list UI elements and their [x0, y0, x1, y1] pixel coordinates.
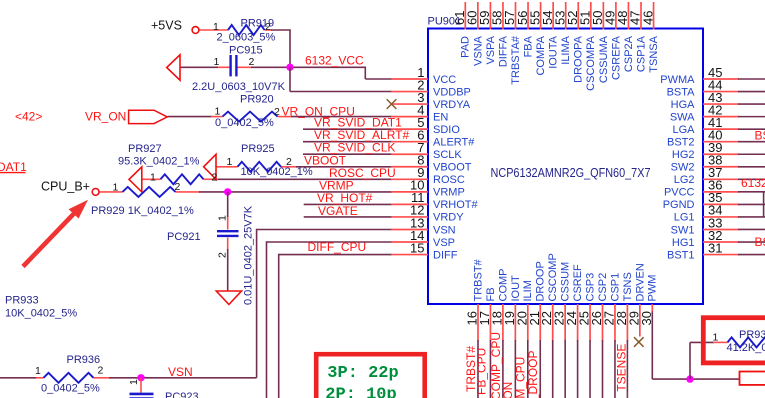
pin 14 VSP	[391, 228, 455, 249]
power terminal +5VS	[151, 18, 199, 33]
wire vertical into node 6132_VCC	[289, 30, 291, 67]
pin 34 LG1	[674, 203, 765, 224]
svg-text:PWMA: PWMA	[660, 74, 695, 86]
svg-text:BST1: BST1	[667, 249, 695, 261]
pin 24 CSREF	[564, 264, 584, 398]
pin 39 HG2	[672, 140, 765, 161]
off-page connector PWM net	[740, 372, 765, 385]
svg-text:CSREFA: CSREFA	[610, 35, 622, 80]
svg-text:PGND: PGND	[663, 199, 695, 211]
wire PR927 pin 2 to pin 9 ROSC	[204, 178, 393, 180]
arrow terminal PR925 tap	[204, 154, 216, 179]
svg-text:31: 31	[708, 240, 722, 255]
annotation left labels PR933	[5, 295, 77, 320]
annotation arrow to CPU_B+	[23, 200, 88, 267]
pin 59 VSPA	[477, 2, 497, 65]
svg-text:DROOPA: DROOPA	[573, 35, 585, 83]
resistor PR936 labels	[35, 354, 104, 394]
resistor R PR925 zigzag	[238, 162, 282, 172]
net label VR_SVID_ALRT#	[314, 128, 409, 142]
svg-text:2: 2	[98, 364, 104, 376]
svg-text:2_0603_5%: 2_0603_5%	[217, 32, 276, 44]
svg-text:VR_SVID_CLK: VR_SVID_CLK	[314, 140, 395, 154]
wire PR919 pin 2 to corner	[265, 29, 291, 31]
svg-text:SDIO: SDIO	[433, 124, 460, 136]
svg-text:0_0402_5%: 0_0402_5%	[41, 382, 100, 394]
pin 12 VRDY	[391, 203, 464, 224]
pin 22 CSCOMP	[539, 253, 559, 398]
pin 33 SW1	[671, 215, 765, 236]
svg-text:EN: EN	[433, 111, 448, 123]
svg-text:VRDY: VRDY	[433, 212, 464, 224]
svg-text:VDDBP: VDDBP	[433, 86, 471, 98]
svg-text:DAT1: DAT1	[0, 160, 27, 174]
resistor PR935 labels	[713, 329, 765, 354]
net label VRMP	[319, 178, 354, 192]
svg-text:ALERT#: ALERT#	[433, 137, 475, 149]
svg-text:BST2: BST2	[667, 137, 695, 149]
wire PR925 pin 1 tap	[216, 166, 238, 168]
svg-text:+5VS: +5VS	[151, 18, 182, 32]
svg-text:PR925: PR925	[241, 143, 275, 155]
pin 19 IOUT	[502, 275, 522, 398]
svg-text:BST: BST	[755, 129, 765, 143]
pin 54 IOUTA	[540, 2, 560, 69]
svg-text:TSNS: TSNS	[622, 272, 634, 301]
svg-text:CSSUMA: CSSUMA	[598, 35, 610, 83]
capacitor PC921 labels	[167, 205, 255, 305]
svg-text:VRDYA: VRDYA	[433, 99, 471, 111]
svg-text:PAD: PAD	[460, 36, 472, 58]
svg-text:2.2U_0603_10V7K: 2.2U_0603_10V7K	[192, 81, 286, 93]
pin 44 BSTA	[667, 77, 765, 98]
pin 42 SWA	[670, 102, 765, 123]
svg-text:2P: 10p: 2P: 10p	[325, 385, 396, 398]
svg-text:HG2: HG2	[672, 149, 695, 161]
svg-text:IOUTA: IOUTA	[548, 35, 560, 68]
wire PVCC loop edge	[763, 192, 765, 217]
wire pin 14 VSP vertical	[266, 241, 268, 398]
pin 4 EN	[391, 102, 448, 123]
pin 35 PGND	[663, 190, 765, 211]
svg-text:1: 1	[215, 106, 221, 118]
junction 6132_VCC	[286, 64, 293, 71]
svg-text:BSTA: BSTA	[667, 86, 696, 98]
pin 9 ROSC	[391, 165, 465, 186]
wire pin 30 PWM down	[651, 311, 653, 379]
svg-text:VSP: VSP	[433, 237, 455, 249]
pin 46 TSNSA	[640, 2, 660, 73]
junction VSN node	[137, 374, 144, 381]
pin 55 COMPA	[527, 2, 547, 76]
svg-text:VRHOT#: VRHOT#	[433, 199, 479, 211]
svg-text:VSN: VSN	[168, 365, 193, 379]
pin 43 HGA	[671, 90, 765, 111]
arrow terminal PC915 net	[167, 55, 180, 80]
svg-text:1: 1	[113, 182, 119, 194]
svg-text:SW2: SW2	[671, 162, 695, 174]
svg-text:CSP1A: CSP1A	[635, 35, 647, 72]
svg-text:IOUT: IOUT	[510, 275, 522, 302]
pin 17 FB	[477, 287, 497, 398]
capacitor PC923 labels	[128, 379, 199, 398]
svg-text:15: 15	[410, 240, 424, 255]
pin 20 ILIM	[514, 280, 534, 398]
resistor PR929 labels	[91, 181, 194, 217]
net label COMP_CPU	[489, 332, 503, 398]
svg-text:1: 1	[213, 21, 219, 33]
net label 6132 PVCC	[741, 176, 765, 190]
svg-text:VSN: VSN	[433, 224, 456, 236]
svg-text:0.01U_0402_25V7K: 0.01U_0402_25V7K	[243, 205, 255, 305]
svg-text:PR936: PR936	[67, 354, 101, 366]
net label ROSC_CPU	[329, 166, 396, 180]
pin 7 SCLK	[391, 140, 462, 161]
pin 16 TRBST#	[465, 258, 485, 398]
net label VGATE	[318, 204, 358, 218]
svg-text:SWA: SWA	[670, 111, 695, 123]
resistor R PR927 zigzag	[161, 174, 204, 184]
net label BST2	[755, 129, 765, 143]
net label VBOOT	[304, 154, 347, 168]
resistor PR919 labels	[213, 18, 275, 44]
capacitor C PC915	[231, 55, 237, 76]
resistor R PR919 zigzag	[228, 25, 265, 35]
wire PR936 pin 2 to VSN junction	[94, 377, 257, 379]
svg-text:LGA: LGA	[672, 124, 695, 136]
wire pin 13 VSN horizontal	[257, 229, 392, 231]
svg-text:PWM: PWM	[647, 275, 659, 302]
svg-text:TRBSTA#: TRBSTA#	[510, 35, 522, 85]
svg-text:CSP3: CSP3	[584, 273, 596, 302]
off-page connector VR_ON	[15, 109, 167, 123]
svg-text:ILIMA: ILIMA	[560, 35, 572, 64]
svg-text:FB_CPU: FB_CPU	[475, 348, 489, 395]
svg-text:VCC: VCC	[433, 74, 456, 86]
wire VR_SVID_ALRT# to pin 6	[303, 141, 392, 143]
wire VR_ON to PR920 pin 1	[168, 116, 223, 118]
svg-text:SCLK: SCLK	[433, 149, 462, 161]
svg-text:1: 1	[128, 379, 140, 385]
pin 57 TRBSTA#	[502, 2, 522, 85]
svg-text:PC923: PC923	[165, 391, 199, 398]
svg-text:PC915: PC915	[229, 45, 263, 57]
pin 60 VSNA	[465, 2, 485, 66]
wire PC915 pin 2 to node	[237, 66, 291, 68]
svg-text:CPU_DROOP: CPU_DROOP	[526, 350, 540, 398]
svg-text:ILIM: ILIM	[522, 280, 534, 301]
svg-text:TSNSA: TSNSA	[648, 35, 660, 72]
pin 58 DIFFA	[490, 2, 510, 67]
svg-text:10K_0402_1%: 10K_0402_1%	[241, 166, 313, 178]
wire node to pin 2 VDDBP	[290, 67, 392, 91]
net label VR_SVID_CLK	[314, 140, 395, 154]
net label CPU_DROOP	[526, 350, 540, 398]
wire CPU_B+ to PR929 pin 1	[99, 191, 123, 193]
svg-text:VSPA: VSPA	[485, 35, 497, 64]
svg-text:HGA: HGA	[671, 99, 696, 111]
wire pin 15 DIFF horizontal	[279, 254, 392, 256]
pin 56 FBA	[515, 2, 535, 57]
pin 1 VCC	[391, 65, 456, 86]
pin 5 SDIO	[391, 115, 460, 136]
svg-text:3P: 22p: 3P: 22p	[327, 364, 398, 383]
junction PWM node	[686, 375, 693, 382]
svg-text:CSP2: CSP2	[597, 273, 609, 302]
svg-text:BST: BST	[755, 235, 765, 249]
pin 48 CSP2A	[615, 2, 635, 72]
svg-text:COMPA: COMPA	[535, 35, 547, 75]
svg-text:DIFF: DIFF	[433, 249, 458, 261]
pin 30 PWM	[639, 275, 659, 326]
svg-text:2: 2	[212, 172, 218, 184]
wire PR925 pin 2 to pin 8 VBOOT	[281, 166, 392, 168]
svg-text:10K_0402_5%: 10K_0402_5%	[5, 307, 77, 319]
net label FB_CPU	[475, 348, 489, 395]
wire PR927 pin 1 tap	[142, 178, 161, 180]
pin 25 CSP3	[577, 273, 597, 398]
pin 61 PAD	[452, 2, 472, 58]
svg-text:1: 1	[35, 365, 41, 377]
svg-text:PR920: PR920	[240, 93, 274, 105]
junction VRMP node	[224, 188, 231, 195]
svg-text:95.3K_0402_1%: 95.3K_0402_1%	[118, 155, 200, 167]
net label DAT1 stub	[0, 160, 27, 174]
wire pin 14 VSP horizontal	[267, 241, 393, 243]
svg-text:VRMP: VRMP	[433, 187, 465, 199]
pin 41 LGA	[672, 115, 765, 136]
svg-text:CPU_B+: CPU_B+	[41, 179, 90, 193]
net label VSN	[168, 365, 193, 379]
resistor R PR920 zigzag	[223, 112, 278, 122]
svg-text:DIFFA: DIFFA	[497, 35, 509, 67]
wire PR920 pin 2 to pin 4 EN	[278, 116, 393, 118]
pin 32 HG1	[672, 228, 765, 249]
pin 45 PWMA	[660, 65, 765, 86]
svg-text:LG2: LG2	[674, 174, 695, 186]
wire pin 15 DIFF vertical	[278, 254, 280, 398]
wire +5VS to PR919 pin 1	[199, 29, 228, 31]
svg-text:CSREF: CSREF	[572, 264, 584, 302]
resistor R PR935 zigzag	[728, 337, 765, 347]
svg-text:VGATE: VGATE	[318, 204, 358, 218]
IC PU901 refdes	[428, 15, 462, 27]
pin 53 ILIMA	[552, 2, 572, 65]
pin 49 CSREFA	[603, 2, 623, 80]
svg-text:2: 2	[175, 181, 181, 193]
resistor PR927 labels	[118, 143, 218, 184]
wire VGATE to pin 12	[304, 216, 392, 218]
net label VR_SVID_DAT1	[314, 115, 402, 129]
pin 15 DIFF	[391, 240, 458, 261]
svg-text:NCP6132AMNR2G_QFN60_7X7: NCP6132AMNR2G_QFN60_7X7	[491, 165, 651, 180]
pin 3 VRDYA	[387, 90, 471, 111]
svg-text:CSCOMP: CSCOMP	[547, 253, 559, 301]
net label VR_TSENSE	[615, 344, 629, 398]
svg-text:VR_TSENSE: VR_TSENSE	[615, 344, 629, 398]
svg-text:VR_HOT#: VR_HOT#	[317, 191, 373, 205]
svg-text:PR933: PR933	[5, 295, 39, 307]
svg-text:LG1: LG1	[674, 212, 695, 224]
net label TRBST#	[464, 346, 478, 392]
svg-text:1: 1	[227, 156, 233, 168]
resistor PR920 labels	[215, 93, 281, 129]
wire VR_SVID_CLK to pin 7	[303, 153, 392, 155]
svg-text:PVCC: PVCC	[664, 187, 695, 199]
capacitor C PC923	[130, 394, 154, 398]
svg-text:2: 2	[217, 252, 229, 258]
svg-text:CSSUM: CSSUM	[560, 262, 572, 302]
pin 28 TSNS	[614, 272, 634, 398]
pin 6 ALERT#	[391, 128, 475, 149]
capacitor C PC921	[217, 231, 239, 236]
svg-text:46: 46	[640, 11, 655, 25]
svg-text:1: 1	[217, 215, 229, 221]
pin 2 VDDBP	[391, 77, 471, 98]
net label 6132_VCC	[305, 54, 364, 68]
pin 36 PVCC	[664, 178, 765, 199]
pin 18 COMP	[489, 269, 509, 398]
arrow terminal PR927 tap	[129, 167, 142, 192]
ground PC921	[216, 291, 241, 305]
svg-text:DIFF_CPU: DIFF_CPU	[308, 240, 367, 254]
power terminal CPU_B+	[41, 179, 99, 195]
svg-text:FB: FB	[485, 287, 497, 301]
wire junction up to PR935	[690, 342, 728, 379]
pin 37 LG2	[674, 165, 765, 186]
svg-text:1: 1	[150, 171, 156, 183]
pin 31 BST1	[667, 240, 765, 261]
svg-text:CSP2A: CSP2A	[623, 35, 635, 72]
resistor PR925 labels	[227, 143, 313, 178]
wire VSN node to PC923	[140, 378, 142, 393]
svg-text:1: 1	[713, 331, 719, 343]
svg-text:2: 2	[274, 106, 280, 118]
pin 21 DROOP	[527, 261, 547, 398]
svg-text:PC921: PC921	[167, 231, 201, 243]
wire VSN bottom run left	[0, 377, 44, 379]
svg-text:SW1: SW1	[671, 224, 695, 236]
wire VR_SVID_DAT1 to pin 5	[303, 128, 392, 130]
wire PR929 pin 2 to pin 10 VRMP	[176, 191, 393, 193]
svg-text:0_0402_5%: 0_0402_5%	[215, 117, 274, 129]
svg-text:HG1: HG1	[672, 237, 695, 249]
net label VR_HOT#	[317, 191, 373, 205]
svg-text:CSCOMPA: CSCOMPA	[585, 35, 597, 90]
pin 26 CSP2	[589, 273, 609, 398]
wire PC915 pin 1 side	[180, 66, 230, 68]
pin 13 VSN	[391, 215, 456, 236]
svg-text:2: 2	[286, 156, 292, 168]
resistor R PR936 zigzag	[44, 373, 94, 383]
wire node to pin 1 VCC	[290, 67, 392, 80]
pin 11 VRHOT#	[391, 190, 479, 211]
annotation box 3P 2P values	[316, 354, 425, 398]
annotation box PR935	[703, 318, 765, 363]
pin 40 BST2	[667, 128, 765, 149]
svg-text:DROOP: DROOP	[535, 261, 547, 301]
svg-text:30: 30	[639, 311, 654, 325]
net label VR_ON_CPU	[282, 104, 355, 118]
op-amp controller U PU901 body	[428, 29, 703, 305]
wire PC921 pin 2 to ground	[227, 238, 229, 292]
pin 27 CSP1	[601, 273, 621, 398]
wire VRMP node to PC921 pin 1	[227, 192, 229, 230]
svg-text:2: 2	[249, 56, 255, 68]
svg-text:VSNA: VSNA	[472, 35, 484, 66]
pin 52 DROOPA	[565, 2, 585, 83]
pin 51 CSCOMPA	[578, 2, 598, 91]
svg-text:41.2K_04: 41.2K_04	[727, 342, 765, 354]
svg-text:DRVEN: DRVEN	[634, 263, 646, 301]
svg-text:ROSC: ROSC	[433, 174, 465, 186]
wire PWM to junction	[652, 378, 739, 380]
svg-text:<42>: <42>	[15, 109, 42, 123]
pin 23 CSSUM	[552, 262, 572, 398]
pin 29 DRVEN	[626, 263, 646, 347]
svg-text:VBOOT: VBOOT	[433, 162, 472, 174]
wire pin 13 VSN vertical	[256, 229, 258, 378]
pin 50 CSSUMA	[590, 2, 610, 83]
svg-text:2: 2	[265, 21, 271, 33]
capacitor PC915 labels	[192, 45, 286, 93]
svg-text:PR927: PR927	[128, 143, 162, 155]
svg-text:TRBST#: TRBST#	[472, 258, 484, 301]
svg-text:CSP1: CSP1	[609, 273, 621, 302]
pin 10 VRMP	[391, 178, 465, 199]
svg-text:6132_VCC: 6132_VCC	[305, 54, 364, 68]
svg-text:FBA: FBA	[522, 35, 534, 57]
net label CPU_IMON	[501, 382, 515, 398]
svg-text:6132_V: 6132_V	[741, 176, 765, 190]
wire VR_HOT# to pin 11	[304, 203, 392, 205]
net label DIFF_CPU	[308, 240, 367, 254]
pin 38 SW2	[671, 153, 765, 174]
IC PU901 value NCP6132AMNR2G_QFN60_7X7	[491, 165, 651, 180]
net label ILIM_CPU	[514, 357, 528, 398]
svg-text:1: 1	[214, 56, 220, 68]
resistor R PR929 zigzag	[123, 187, 176, 197]
svg-text:VR_ON: VR_ON	[85, 109, 126, 123]
svg-text:COMP: COMP	[497, 269, 509, 302]
svg-text:PR935: PR935	[739, 329, 765, 341]
pin 8 VBOOT	[391, 153, 472, 174]
pin 47 CSP1A	[628, 2, 648, 72]
svg-text:PR929 1K_0402_1%: PR929 1K_0402_1%	[91, 205, 194, 217]
net label BST1	[755, 235, 765, 249]
